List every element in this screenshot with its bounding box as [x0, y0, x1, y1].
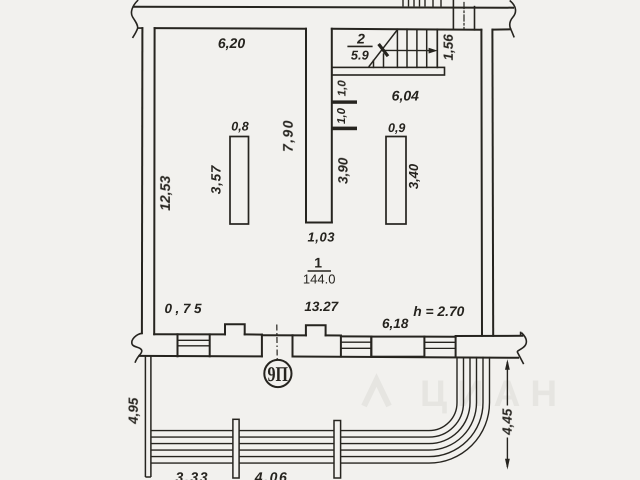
stair tread 2: [406, 29, 408, 67]
svg-text:7,90: 7,90: [280, 119, 296, 152]
window3 jamb right: [455, 337, 457, 357]
break squiggle bottom-left: [132, 333, 142, 362]
central wall stub right edge: [331, 29, 333, 223]
stair flight right edge: [436, 29, 438, 67]
stair tread 3: [416, 29, 418, 67]
interior edge window3 span: [424, 336, 455, 338]
entrance axis dash-dot: [276, 325, 278, 360]
svg-text:0,9: 0,9: [388, 121, 405, 135]
svg-text:1,56: 1,56: [441, 34, 456, 61]
pipe 4: [151, 357, 477, 450]
stair arrow head: [429, 48, 438, 54]
svg-text:6,04: 6,04: [392, 88, 419, 104]
pipe 6: [151, 357, 490, 463]
top wall bottom edge left segment: [155, 27, 306, 30]
svg-text:9П: 9П: [267, 362, 288, 386]
window3 glazing line a: [424, 341, 455, 343]
break squiggle top-right: [510, 1, 516, 37]
bottom wall: [132, 324, 527, 363]
window2 glazing line a: [341, 341, 371, 343]
central wall stub left edge: [305, 29, 307, 223]
pier P1 (0.8 x 3.57): [230, 137, 249, 225]
break squiggle bottom-right: [517, 332, 526, 363]
dimension arrow 4.45: [505, 359, 510, 469]
left wall interior edge: [153, 28, 155, 334]
svg-text:3,40: 3,40: [406, 163, 421, 189]
lower flight partial tread a: [373, 61, 375, 68]
room 1 fraction bar: [308, 270, 331, 272]
svg-text:5.9: 5.9: [351, 47, 370, 62]
room 2 fraction bar: [347, 45, 372, 47]
pier1 right edge: [261, 335, 263, 357]
shaft axis dash-dot: [463, 3, 465, 30]
pier P2 (0.9 x 3.40): [386, 137, 406, 225]
ventilation shaft right line in top wall: [474, 7, 476, 30]
svg-text:4,95: 4,95: [126, 397, 141, 425]
exterior edge right run: [293, 357, 519, 358]
svg-text:3,90: 3,90: [336, 157, 351, 184]
pier2 right edge / window2 jamb left: [340, 336, 342, 357]
terrace pipes (6 parallel lines with quarter bend): [151, 357, 490, 463]
svg-text:1,0: 1,0: [337, 80, 349, 97]
svg-text:144.0: 144.0: [303, 272, 336, 287]
axis mark circle 9П: [264, 360, 291, 387]
svg-text:0,8: 0,8: [231, 120, 248, 134]
interior edge after bump1: [245, 333, 262, 335]
window2 jamb right: [370, 337, 372, 357]
duct bar 1 on stub: [332, 100, 357, 103]
svg-text:13.27: 13.27: [304, 299, 339, 314]
stair tread 1: [396, 29, 398, 67]
duct bar 2 on stub: [332, 127, 357, 131]
pipe 5: [151, 357, 483, 457]
svg-text:4,45: 4,45: [500, 408, 515, 436]
svg-text:ЦИАН: ЦИАН: [420, 373, 567, 414]
svg-text:4,06: 4,06: [254, 469, 289, 480]
svg-text:0,75: 0,75: [164, 301, 205, 316]
svg-text:1,03: 1,03: [307, 230, 335, 245]
watermark logo triangle: [364, 380, 389, 406]
bump pilaster 2: [306, 325, 326, 335]
svg-text:3,33: 3,33: [175, 469, 209, 480]
break squiggle top-left: [131, 1, 142, 38]
interior edge left section: [154, 333, 225, 335]
window2 glazing line b: [341, 347, 371, 349]
top wall bottom edge right segment: [493, 28, 511, 30]
stair direction arrow line: [379, 44, 438, 56]
svg-text:2: 2: [356, 31, 365, 47]
right wall exterior edge: [491, 30, 494, 336]
terrace post 1: [233, 419, 239, 478]
svg-text:3,57: 3,57: [209, 164, 224, 194]
stairway room 2: [332, 29, 445, 75]
exterior edge left run: [139, 355, 262, 358]
ventilation shaft left line in top wall: [452, 0, 454, 29]
svg-text:6,20: 6,20: [218, 35, 245, 51]
svg-text:1: 1: [314, 255, 322, 271]
upper flight treads above wall: [403, 0, 441, 7]
pipe 2: [151, 357, 464, 437]
window1 jamb right / pier1 left edge: [209, 334, 211, 356]
interior edge window2 span: [341, 335, 371, 337]
terrace post 2: [334, 421, 341, 479]
lower flight partial tread b: [383, 54, 385, 67]
window1 glazing line a: [178, 339, 210, 341]
window1 jamb left: [177, 334, 179, 356]
stair arrow start slash: [379, 44, 388, 56]
interior edge over door gap: [262, 334, 306, 336]
right wall interior edge: [480, 30, 483, 336]
svg-text:6,18: 6,18: [382, 316, 409, 331]
stair tread 4: [426, 29, 428, 67]
stair break diagonal: [369, 30, 397, 67]
pipe 1: [151, 357, 457, 431]
window1 glazing line b: [178, 345, 210, 347]
pier2 left edge: [292, 335, 294, 356]
top wall bottom edge stair-to-rightwall segment: [332, 29, 482, 30]
top wall top edge: [134, 7, 513, 8]
terrace left rail bar: [145, 356, 151, 477]
interior edge after bump2: [326, 334, 341, 336]
bump pilaster 1: [225, 324, 245, 334]
window3 glazing line b: [424, 347, 455, 349]
pier3 closed box: [371, 337, 424, 357]
central wall stub bottom cap: [306, 222, 332, 224]
svg-text:12,53: 12,53: [157, 176, 173, 211]
landing handrail bar: [332, 67, 445, 75]
svg-text:h = 2.70: h = 2.70: [413, 304, 464, 319]
left wall exterior edge: [141, 28, 144, 333]
svg-text:1,0: 1,0: [336, 107, 348, 124]
pipe 3: [151, 357, 470, 444]
interior edge right corner block: [456, 335, 523, 337]
